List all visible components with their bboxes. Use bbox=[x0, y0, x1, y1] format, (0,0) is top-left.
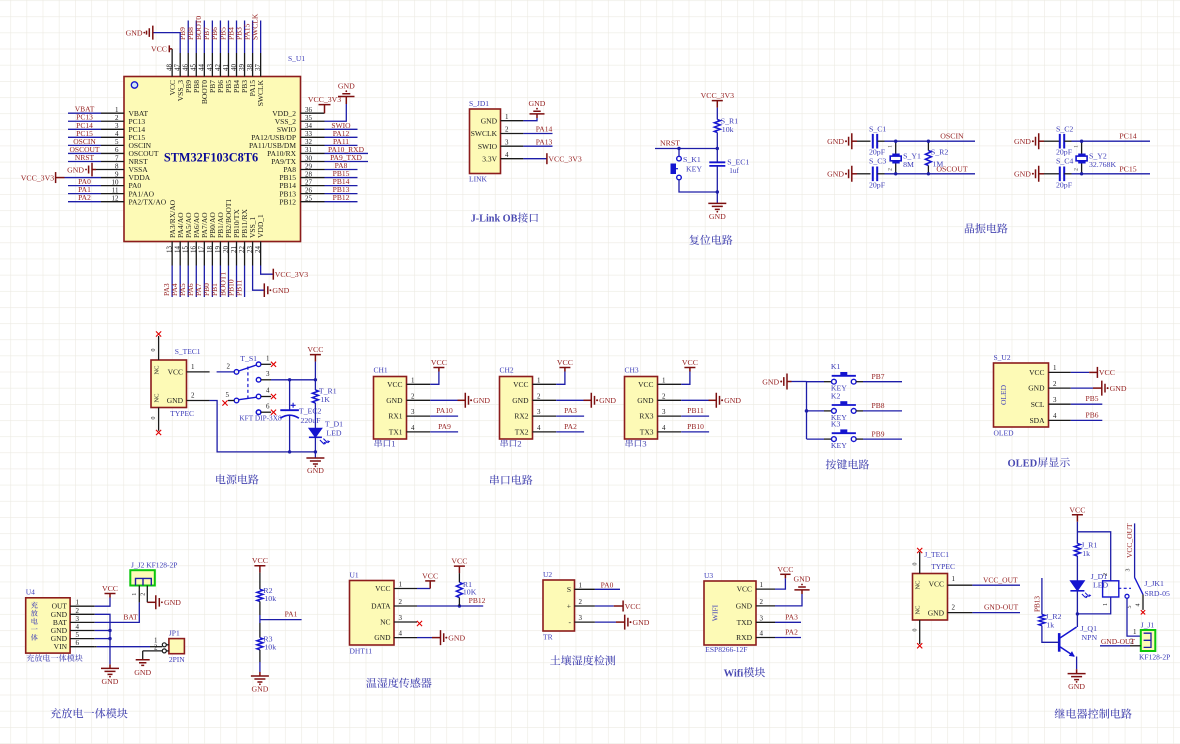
wire JD1 pin 1 to ground bbox=[523, 114, 537, 121]
net label NRST bbox=[660, 138, 680, 147]
svg-text:1: 1 bbox=[888, 145, 894, 148]
wire gnd to S_C4 bbox=[1044, 173, 1060, 175]
pin 27 of U1 (PB14) bbox=[301, 185, 325, 187]
wire K3 to net PB9 bbox=[856, 438, 902, 440]
svg-text:1uf: 1uf bbox=[729, 167, 739, 175]
label 串口3 bbox=[626, 439, 648, 449]
pin 1 of JP1 bbox=[154, 637, 169, 647]
pin 2 of U1 (PC13) bbox=[101, 120, 124, 122]
svg-text:S_TEC1: S_TEC1 bbox=[175, 347, 201, 356]
wire R1 to DATA bbox=[458, 598, 460, 607]
svg-text:1: 1 bbox=[662, 376, 666, 384]
svg-text:J_J1: J_J1 bbox=[1141, 621, 1155, 630]
wire net PB7 at U1 pin 43 bbox=[211, 21, 213, 54]
power flag VCC_3V3 at U1 pin 24 bbox=[273, 269, 308, 280]
pin 1 of CH3 (VCC) bbox=[658, 383, 682, 385]
pin 22 of U1 (PB11/RX) bbox=[244, 242, 246, 266]
svg-text:SWCLK: SWCLK bbox=[250, 13, 259, 40]
svg-text:RX1: RX1 bbox=[388, 412, 402, 421]
wire K1 to net PB7 bbox=[856, 381, 902, 383]
power flag VCC at U1 pin 48 bbox=[151, 44, 172, 53]
pin 33 of U1 (PA12/USB/DP) bbox=[301, 136, 325, 138]
svg-text:4: 4 bbox=[760, 630, 764, 638]
svg-text:PB8: PB8 bbox=[872, 401, 885, 410]
svg-text:S_R2: S_R2 bbox=[931, 148, 948, 157]
net label OSCIN bbox=[940, 132, 964, 141]
label charge module small bbox=[27, 654, 83, 662]
svg-text:VCC_3V3: VCC_3V3 bbox=[548, 155, 581, 164]
svg-text:STM32F103C8T6: STM32F103C8T6 bbox=[164, 151, 258, 165]
svg-text:NC: NC bbox=[915, 580, 922, 589]
svg-text:T_D1: T_D1 bbox=[325, 420, 343, 429]
pin 38 of U1 (PA15) bbox=[252, 53, 254, 77]
svg-text:10K: 10K bbox=[463, 588, 477, 597]
pin 2 of CH3 (GND) bbox=[658, 399, 682, 401]
svg-text:PA2: PA2 bbox=[78, 193, 91, 202]
net label PA11 bbox=[333, 137, 349, 146]
pin 1 of J2 bbox=[132, 586, 139, 603]
net label PB15 bbox=[333, 169, 350, 178]
power flag VCC_3V3 (reset circuit) bbox=[701, 91, 734, 108]
module U3 ESP8266 body bbox=[704, 571, 756, 654]
net label PB8 bbox=[872, 401, 885, 410]
title relay control circuit bbox=[1055, 708, 1132, 718]
net label VCC_OUT bbox=[983, 575, 1018, 584]
svg-text:VCC: VCC bbox=[387, 380, 402, 389]
pin 2 of JD1 (SWCLK) bbox=[501, 133, 524, 135]
wire LED to collector node bbox=[1076, 591, 1078, 614]
wire CH3 GND to ground bbox=[681, 399, 716, 401]
wire net PA3 at U3 pin 3 bbox=[775, 621, 801, 623]
svg-text:J_TEC1: J_TEC1 bbox=[924, 550, 949, 559]
pin 3 of U4 (BAT) bbox=[70, 621, 95, 623]
svg-text:OLED: OLED bbox=[1008, 458, 1038, 469]
svg-text:1k: 1k bbox=[1046, 620, 1054, 629]
svg-text:SCL: SCL bbox=[1031, 400, 1045, 409]
pin 45 of U1 (PB8) bbox=[195, 53, 197, 77]
svg-text:PA9: PA9 bbox=[438, 422, 451, 431]
net label OSCIN bbox=[73, 137, 96, 146]
pin 4 of U3 (RXD) bbox=[756, 637, 775, 639]
junction S_R2 top bbox=[927, 140, 930, 143]
pin 19 of U1 (PB1/AO) bbox=[219, 242, 221, 266]
net label PB14 bbox=[333, 177, 350, 186]
wire gnd to S_C3 bbox=[857, 173, 871, 175]
ic U1 top pin numbers 48-37 bbox=[166, 64, 262, 72]
pin 3 of CH1 (RX1) bbox=[407, 415, 431, 417]
pin 3 of CH3 (RX3) bbox=[658, 415, 682, 417]
svg-text:GND: GND bbox=[481, 116, 498, 125]
J_TEC1 shell stub bottom bbox=[912, 620, 919, 644]
net label PB0 bbox=[202, 283, 211, 296]
svg-text:TR: TR bbox=[543, 633, 553, 642]
ground at U1 pin 47 bbox=[126, 26, 181, 53]
wire net PB1 at U1 pin 19 bbox=[219, 266, 221, 298]
net label PB11 bbox=[234, 279, 243, 296]
resistor R2 10k bbox=[257, 586, 276, 603]
junction EC2 bottom bbox=[288, 450, 291, 453]
wire S_C3 to OSCOUT bbox=[877, 173, 975, 175]
pin 2 of J2 bbox=[141, 586, 148, 603]
net label VCC_OUT vertical (relay) bbox=[1125, 523, 1134, 558]
svg-text:RXD: RXD bbox=[736, 633, 752, 642]
pin 3 of U2 OLED (SCL) bbox=[1049, 403, 1071, 405]
svg-text:S: S bbox=[567, 585, 571, 594]
svg-text:4: 4 bbox=[76, 623, 80, 631]
svg-text:GND: GND bbox=[272, 286, 289, 295]
svg-text:3: 3 bbox=[642, 439, 647, 449]
junction U4 pin4 gnd bbox=[108, 629, 111, 632]
pin 7 of U1 (NRST) bbox=[101, 160, 124, 162]
svg-text:GND: GND bbox=[1028, 384, 1045, 393]
svg-text:VCC: VCC bbox=[375, 584, 390, 593]
pin 20 of U1 (PB2/BOOT1) bbox=[227, 242, 229, 266]
junction S_Y2 top bbox=[1080, 140, 1083, 143]
power flag VCC at U3 bbox=[777, 565, 793, 575]
wire net PA2 at U1 pin 12 bbox=[68, 201, 101, 203]
svg-text:4: 4 bbox=[1136, 604, 1142, 607]
pin 31 of U1 (PA10/RX) bbox=[301, 152, 325, 154]
title WiFi module bbox=[724, 667, 766, 679]
svg-text:4: 4 bbox=[662, 424, 666, 432]
svg-text:+: + bbox=[567, 602, 571, 611]
net label GND-OUT bbox=[984, 603, 1019, 612]
wire CH3 VCC to power flag bbox=[681, 368, 690, 385]
wire net PA3 at CH2 pin 3 bbox=[556, 415, 584, 417]
net label PB5 bbox=[218, 27, 227, 40]
svg-text:20pF: 20pF bbox=[1056, 181, 1073, 190]
wire net PB13 at U1 pin 26 bbox=[325, 193, 358, 195]
wire net BAT from U4 pin 3 to J2 bbox=[95, 602, 140, 622]
switch pin 4 stub with X bbox=[261, 387, 276, 400]
svg-text:GND: GND bbox=[633, 618, 650, 627]
svg-text:1: 1 bbox=[579, 581, 583, 589]
wire net PB10 at U1 pin 21 bbox=[236, 266, 238, 298]
pin 23 of U1 (VSS_1) wire to ground bbox=[253, 266, 265, 291]
net label PB3 bbox=[234, 27, 243, 40]
svg-text:S_C3: S_C3 bbox=[869, 157, 886, 166]
wire net PA9_TXD at U1 pin 30 bbox=[325, 160, 369, 162]
svg-text:GND: GND bbox=[126, 28, 143, 37]
svg-text:OLED: OLED bbox=[994, 429, 1015, 438]
relay coil J_JK1 box bbox=[1103, 573, 1119, 606]
pin 36 of U1 (VDD_2) bbox=[301, 112, 325, 114]
net label PA1 bbox=[78, 185, 91, 194]
module U2 pin numbers bbox=[1053, 364, 1057, 420]
wire net PA3 at U1 pin 13 bbox=[171, 266, 173, 298]
svg-text:10k: 10k bbox=[722, 125, 734, 134]
module U1 pin names bbox=[371, 584, 391, 642]
svg-text:PA2: PA2 bbox=[564, 422, 577, 431]
pin 9 of U1 (VDDA) bbox=[101, 177, 124, 179]
net label PA0 bbox=[78, 177, 91, 186]
net label PB12 bbox=[333, 193, 350, 202]
ground (divider) bbox=[251, 676, 269, 694]
pin 2 of U1 DHT11 (DATA) bbox=[394, 605, 417, 607]
svg-text:4: 4 bbox=[411, 424, 415, 432]
pin 3 of CH2 (RX2) bbox=[533, 415, 557, 417]
net label PA3 bbox=[785, 613, 798, 622]
svg-text:PA1: PA1 bbox=[285, 610, 298, 619]
pin 2 of U2 OLED (GND) bbox=[1049, 387, 1071, 389]
svg-text:GND: GND bbox=[102, 677, 119, 686]
key K1 KEY pushbutton bbox=[831, 362, 856, 393]
net label PA3 bbox=[564, 406, 577, 415]
wire TEC1 GND to bottom rail bbox=[210, 401, 316, 452]
svg-text:GND-OUT: GND-OUT bbox=[984, 603, 1019, 612]
net label PB8 bbox=[186, 27, 195, 40]
svg-text:LED: LED bbox=[326, 429, 342, 438]
net label PA15 bbox=[242, 23, 251, 40]
wire collector to node bbox=[1076, 614, 1078, 627]
ground at OLED pin 2 bbox=[1102, 381, 1127, 396]
net label PB10 bbox=[226, 279, 235, 296]
ground at S_C3 bbox=[827, 166, 857, 182]
wire net PA9 at CH1 pin 4 bbox=[430, 431, 458, 433]
svg-text:5: 5 bbox=[226, 391, 230, 399]
svg-text:1: 1 bbox=[132, 593, 138, 596]
wire net PC14 at U1 pin 3 bbox=[68, 128, 101, 130]
power flag VCC (relay circuit) bbox=[1069, 505, 1085, 522]
pin 30 of U1 (PA9/TX) bbox=[301, 160, 325, 162]
net label PB9 bbox=[872, 429, 885, 438]
ground at JD1 pin 1 bbox=[529, 99, 546, 114]
wire net PB6 at U1 pin 42 bbox=[219, 21, 221, 54]
wire net BOOT1 at U1 pin 20 bbox=[227, 266, 229, 298]
capacitor S_C4 20pF bbox=[1056, 157, 1073, 190]
svg-text:U3: U3 bbox=[704, 571, 713, 580]
svg-text:GND: GND bbox=[512, 396, 529, 405]
wire J_R2 to base bbox=[1042, 626, 1059, 643]
junction S_Y1 top bbox=[894, 140, 897, 143]
wire LED to ground rail bbox=[314, 437, 316, 458]
svg-text:3: 3 bbox=[537, 408, 541, 416]
wire net PB9 at U1 pin 46 bbox=[187, 21, 189, 54]
resistor S_R2 1M bbox=[925, 141, 948, 174]
svg-text:VCC_3V3: VCC_3V3 bbox=[308, 95, 341, 104]
power flag VCC_3V3 at U1 pin 9 bbox=[21, 172, 101, 183]
wire U3 VCC to power bbox=[775, 574, 785, 589]
wire net PA12 at U1 pin 33 bbox=[325, 136, 358, 138]
svg-text:3: 3 bbox=[1125, 569, 1131, 572]
svg-text:T_S1: T_S1 bbox=[240, 354, 257, 363]
svg-text:J_JK1: J_JK1 bbox=[1144, 579, 1164, 588]
junction S_R2 bottom bbox=[927, 172, 930, 175]
TEC1 shell stub top bbox=[151, 336, 159, 360]
wire key bus vertical bbox=[806, 382, 808, 440]
ground at U1 pin 23 bbox=[264, 283, 289, 297]
net label PA9_TXD bbox=[330, 153, 362, 162]
ground at U2 pin 3 bbox=[625, 615, 650, 630]
wire net GND-OUT bbox=[972, 612, 1020, 614]
ground (key circuit) bbox=[762, 374, 791, 390]
pin 4 of CH1 (TX1) bbox=[407, 431, 431, 433]
TEC1 shell stub bottom bbox=[151, 408, 159, 431]
net label BOOT1 bbox=[218, 272, 227, 296]
svg-text:2: 2 bbox=[952, 604, 956, 612]
net label PB9 bbox=[178, 27, 187, 40]
pin 5 of U4 (GND) bbox=[70, 638, 95, 640]
svg-text:TX1: TX1 bbox=[389, 428, 403, 437]
svg-text:K3: K3 bbox=[831, 420, 841, 429]
wire net PA2 at CH2 pin 4 bbox=[556, 431, 584, 433]
wire DHT11 VCC to power bbox=[417, 581, 430, 589]
svg-text:VCC: VCC bbox=[451, 557, 467, 566]
svg-text:PB12: PB12 bbox=[279, 197, 296, 206]
net label VBAT bbox=[75, 105, 95, 114]
wire VCC to split node bbox=[1076, 522, 1078, 544]
wire CH2 VCC to power flag bbox=[556, 368, 565, 385]
pin 40 of U1 (PB4) bbox=[236, 53, 238, 77]
wire net PB15 at U1 pin 28 bbox=[325, 177, 358, 179]
svg-text:DHT11: DHT11 bbox=[350, 647, 373, 656]
svg-text:GND: GND bbox=[928, 609, 945, 618]
module U4 pin names bbox=[51, 602, 68, 652]
wire U2 + to power bbox=[595, 605, 623, 607]
svg-text:1k: 1k bbox=[1082, 549, 1090, 558]
svg-text:NC: NC bbox=[915, 605, 922, 614]
wire net OSCIN at U1 pin 5 bbox=[68, 144, 101, 146]
wire key and EC1 to ground rail bbox=[679, 166, 717, 204]
net label PB10 bbox=[687, 422, 704, 431]
wire net PA13 at JD1 pin 3 bbox=[523, 145, 552, 147]
net label NRST bbox=[75, 153, 95, 162]
svg-text:5: 5 bbox=[1127, 606, 1133, 609]
ic U1 bottom pin numbers 13-24 bbox=[166, 246, 262, 254]
wire S_C4 to PC15 bbox=[1064, 173, 1150, 175]
net label PB11 bbox=[687, 406, 704, 415]
key K2 KEY pushbutton bbox=[831, 391, 856, 422]
wire net PA10 at CH1 pin 3 bbox=[430, 415, 458, 417]
wire net PB11 at U1 pin 22 bbox=[244, 266, 246, 298]
pin 17 of U1 (PA7/AO) bbox=[203, 242, 205, 266]
ic U1 STM32F103C8T6 body bbox=[124, 54, 305, 242]
svg-text:3: 3 bbox=[662, 408, 666, 416]
wire VCC to R1 bbox=[458, 573, 460, 582]
pin 3 NC no-connect X bbox=[417, 621, 422, 626]
wire net PB6 at OLED pin 4 bbox=[1071, 419, 1103, 421]
svg-text:S_EC1: S_EC1 bbox=[727, 158, 749, 167]
connector JD1 pin numbers bbox=[505, 113, 509, 159]
wire PB13 to J_R2 bbox=[1041, 578, 1043, 614]
svg-text:VIN: VIN bbox=[54, 642, 68, 651]
svg-text:5: 5 bbox=[76, 631, 80, 639]
net label PA0 bbox=[601, 581, 614, 590]
pin 1 of J_TEC1 (VCC) bbox=[948, 575, 973, 585]
connector CH1 body bbox=[374, 366, 407, 440]
wire net PC13 at U1 pin 2 bbox=[68, 120, 101, 122]
wire OLED GND to ground bbox=[1071, 387, 1102, 389]
pin 16 of U1 (PA6/AO) bbox=[195, 242, 197, 266]
wire gnd to S_C1 bbox=[857, 140, 871, 142]
switch pin 1 stub with X bbox=[261, 355, 276, 367]
resistor J_R1 1k bbox=[1074, 541, 1097, 559]
pin 2 of U4 (GND) bbox=[70, 613, 95, 615]
label 串口2 bbox=[501, 439, 522, 449]
pin 2 of CH2 (GND) bbox=[533, 399, 557, 401]
svg-text:220uF: 220uF bbox=[301, 416, 322, 425]
key S_K1 KEY pushbutton bbox=[671, 155, 703, 180]
power flag VCC at U2 bbox=[623, 601, 641, 612]
pin 1 of U2 (S) bbox=[575, 588, 595, 590]
svg-text:GND: GND bbox=[599, 396, 616, 405]
svg-text:2: 2 bbox=[579, 598, 583, 606]
pin 48 of U1 (VCC) bbox=[171, 53, 173, 77]
pin 25 of U1 (PB12) bbox=[301, 201, 325, 203]
pin 35 of U1 (VSS_2) bbox=[301, 120, 325, 122]
net label PA2 bbox=[564, 422, 577, 431]
wire S_C1 to OSCIN bbox=[877, 140, 975, 142]
net label PA13 bbox=[536, 137, 553, 146]
net label PA10 bbox=[436, 406, 453, 415]
ic U1 left pin numbers 1-12 bbox=[112, 106, 120, 202]
svg-text:K2: K2 bbox=[831, 391, 841, 400]
wire net VBAT at U1 pin 1 bbox=[68, 112, 101, 114]
pin 1 of CH2 (VCC) bbox=[533, 383, 557, 385]
ground at CH2 pin 2 bbox=[591, 393, 616, 408]
svg-text:0: 0 bbox=[151, 349, 157, 352]
net label PB5 bbox=[1086, 394, 1099, 403]
junction VCC switch node bbox=[314, 378, 317, 381]
title crystal circuit bbox=[965, 223, 1008, 233]
svg-text:GND: GND bbox=[827, 170, 844, 179]
svg-text:U4: U4 bbox=[26, 588, 35, 597]
pin 11 of U1 (PA1/AO) bbox=[101, 193, 124, 195]
svg-text:3: 3 bbox=[266, 370, 270, 378]
junction EC2 top bbox=[288, 378, 291, 381]
junction key bus at K2 bbox=[805, 409, 808, 412]
transistor Q1 NPN bbox=[1059, 624, 1097, 657]
module U4 vertical name bbox=[31, 602, 38, 641]
net label PB12 bbox=[469, 596, 486, 605]
title charge-discharge module bbox=[51, 708, 128, 718]
wire gnd to S_C2 bbox=[1044, 140, 1060, 142]
svg-text:0: 0 bbox=[912, 629, 918, 632]
pin 4 of JD1 (3.3V) bbox=[501, 158, 524, 160]
svg-text:2: 2 bbox=[141, 593, 147, 596]
connector JP1 2PIN body bbox=[169, 629, 185, 665]
svg-text:PA3: PA3 bbox=[564, 406, 577, 415]
wire CH2 GND to ground bbox=[556, 399, 591, 401]
wire net PB8 at U1 pin 45 bbox=[195, 21, 197, 54]
pin 1 of J1 bbox=[1133, 628, 1137, 636]
module U2 soil sensor body bbox=[543, 570, 575, 642]
wire net PB11 at CH3 pin 3 bbox=[681, 415, 709, 417]
switch pin 3 wire to VCC node bbox=[261, 370, 315, 380]
wire net PA6 at U1 pin 16 bbox=[195, 266, 197, 298]
svg-text:VCC: VCC bbox=[422, 571, 438, 580]
wire EC2 branch bbox=[289, 380, 291, 452]
net label PA1 bbox=[285, 610, 298, 619]
pin 1 of CH1 (VCC) bbox=[407, 383, 431, 385]
wire K2 to net PB8 bbox=[856, 410, 902, 412]
crystal S_Y2 32.768K bbox=[1074, 141, 1117, 174]
pin 15 of U1 (PA5/AO) bbox=[187, 242, 189, 266]
svg-text:10k: 10k bbox=[264, 642, 276, 651]
svg-text:PB13: PB13 bbox=[1034, 596, 1042, 612]
svg-text:JP1: JP1 bbox=[169, 629, 180, 638]
svg-text:GND: GND bbox=[386, 396, 403, 405]
ground at J2 pin 2 bbox=[156, 595, 181, 609]
svg-text:Wifi: Wifi bbox=[724, 668, 744, 679]
wire net PA1 bbox=[260, 619, 302, 621]
wire net PA4 at U1 pin 14 bbox=[179, 266, 181, 298]
wire net SWIO at U1 pin 34 bbox=[325, 128, 358, 130]
net label PA9 bbox=[438, 422, 451, 431]
svg-text:1K: 1K bbox=[320, 395, 330, 404]
svg-text:GND-OUT: GND-OUT bbox=[1101, 637, 1136, 646]
module U4 pin numbers 1-6 bbox=[76, 599, 80, 648]
